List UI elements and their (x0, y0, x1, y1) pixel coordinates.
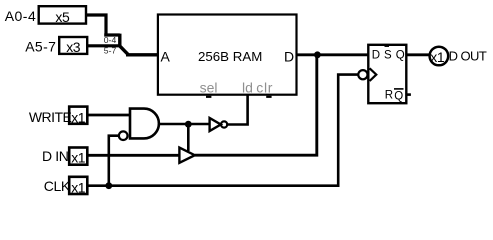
svg-text:x1: x1 (71, 110, 86, 126)
wire CLK branch to gate inverted input (109, 136, 119, 186)
svg-text:Q: Q (394, 91, 403, 103)
wire bus A0-4 (86, 15, 120, 35)
svg-text:A0-4: A0-4 (5, 8, 37, 24)
port box DIN x1 (69, 148, 87, 166)
svg-text:ld: ld (242, 79, 253, 95)
junction write strobe (185, 121, 192, 128)
junction node D (314, 51, 321, 58)
inverter G2 (210, 118, 221, 131)
port box CLK x1 (69, 177, 87, 196)
pin stub clr (266, 96, 271, 98)
svg-text:WRITE: WRITE (29, 109, 72, 125)
svg-text:A: A (161, 49, 171, 65)
AND gate G1 (130, 109, 159, 139)
svg-text:D IN: D IN (42, 148, 68, 164)
port box X3 (59, 37, 87, 55)
svg-text:256B RAM: 256B RAM (198, 49, 262, 64)
svg-text:D: D (284, 49, 294, 65)
RAM U1 256B (158, 15, 297, 96)
svg-text:S: S (384, 50, 392, 62)
wire WRITE to gate (88, 114, 130, 117)
wire enable to buffer (187, 124, 190, 151)
svg-text:D OUT: D OUT (449, 48, 487, 63)
tri-state buffer B1 (179, 148, 194, 163)
wire bus A5-7 (87, 44, 120, 47)
clock wedge U2 (370, 68, 377, 81)
wire G1 output (159, 123, 209, 126)
svg-text:5-7: 5-7 (104, 45, 117, 55)
port box X5 (39, 6, 86, 25)
port circle x1 output (430, 47, 449, 66)
svg-text:sel: sel (200, 79, 218, 95)
wire Q to output (406, 53, 430, 56)
svg-text:x5: x5 (55, 9, 70, 25)
output bubble G2 (221, 121, 227, 127)
pin stub Qbar (407, 93, 411, 96)
svg-text:A5-7: A5-7 (25, 38, 56, 54)
wire data bus buffer out to node D (195, 55, 317, 155)
svg-text:x1: x1 (430, 49, 445, 65)
wire G2 to RAM ld pin (227, 94, 247, 125)
clock bubble U2 (358, 70, 367, 79)
pin stub sel (206, 96, 211, 98)
svg-text:D: D (372, 50, 380, 62)
svg-text:0-4: 0-4 (104, 35, 117, 45)
wire D IN to buffer (88, 154, 180, 157)
svg-text:Q: Q (396, 50, 405, 62)
wire CLK main run to flip-flop clock (88, 75, 358, 186)
flip-flop U2 (368, 45, 406, 103)
input bubble G1 (119, 131, 128, 140)
svg-text:CLK: CLK (44, 178, 71, 194)
junction CLK branch (105, 182, 112, 189)
svg-text:x1: x1 (71, 150, 86, 166)
svg-text:R: R (385, 90, 393, 102)
svg-text:clr: clr (256, 79, 273, 95)
wire bus merge to RAM A (120, 34, 158, 55)
svg-text:x1: x1 (71, 179, 86, 195)
svg-text:x3: x3 (66, 39, 81, 55)
wire RAM D to flip-flop D (297, 53, 369, 56)
port box WRITE x1 (69, 107, 87, 126)
